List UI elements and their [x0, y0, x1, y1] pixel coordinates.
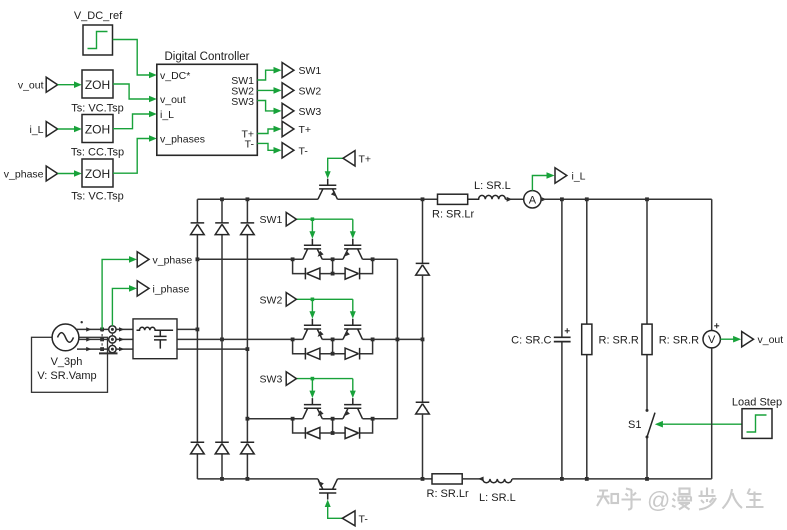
svg-text:v_out: v_out — [758, 334, 784, 346]
ZOH block (i_L) — [82, 115, 113, 143]
voltmeter branch — [703, 199, 720, 479]
node filter out c on bus c — [246, 347, 250, 351]
switch S1 — [628, 409, 655, 439]
diode Da- — [191, 442, 205, 454]
node R branch2 top — [645, 197, 649, 201]
ZOH block (v_out) — [82, 70, 113, 98]
input tag T- — [342, 511, 368, 526]
wire controller T+ out — [257, 126, 281, 134]
svg-text:L: SR.L: L: SR.L — [479, 492, 516, 504]
node cap branch top — [560, 197, 564, 201]
svg-text:i_phase: i_phase — [153, 283, 190, 295]
wire top rail left — [197, 198, 318, 200]
wire SW2 gates — [296, 298, 355, 319]
svg-text:SW2: SW2 — [260, 294, 283, 306]
ZOH block (v_phase) — [82, 159, 113, 187]
svg-text:SW1: SW1 — [260, 214, 283, 226]
wire controller SW1 out — [257, 67, 281, 80]
node bus b bottom — [220, 477, 224, 481]
resistor R: SR.Lr bottom — [427, 474, 470, 500]
wire bottom rail right — [512, 478, 712, 480]
bus b vertical — [221, 199, 223, 479]
wire SW1 row to midpoint bus — [373, 258, 398, 260]
wire ZOH2 to controller i_L — [113, 111, 157, 129]
output tag SW3 — [282, 103, 321, 118]
svg-text:S1: S1 — [628, 419, 641, 431]
node bus c bottom — [246, 477, 250, 481]
svg-text:Load Step: Load Step — [732, 396, 782, 408]
wire load step to S1 — [655, 421, 742, 428]
node cap branch bottom — [560, 477, 564, 481]
input tag SW1 — [260, 212, 297, 226]
svg-text:V_DC_ref: V_DC_ref — [74, 10, 123, 22]
node neutral leg bottom — [421, 477, 425, 481]
svg-text:C: SR.C: C: SR.C — [511, 334, 551, 346]
input tag SW2 — [260, 293, 297, 307]
svg-text:R: SR.R: R: SR.R — [659, 334, 699, 346]
input tag v_phase — [4, 166, 58, 181]
svg-text:@: @ — [647, 487, 670, 513]
wire filter out b — [177, 338, 293, 340]
node R branch2 bottom — [645, 477, 649, 481]
wire phase b from source — [79, 337, 133, 341]
wire SW2 row to neutral leg — [373, 338, 423, 340]
bus c vertical — [246, 199, 248, 479]
svg-text:i_L: i_L — [160, 109, 174, 121]
node phase a voltage tap — [100, 328, 104, 332]
svg-text:SW3: SW3 — [260, 374, 283, 386]
wire i_L tag to ZOH2 — [58, 126, 82, 133]
voltage source V_3ph circle — [52, 321, 83, 351]
step source Load Step — [732, 396, 782, 438]
svg-text:ZOH: ZOH — [85, 167, 110, 181]
neutral leg vertical — [422, 199, 424, 479]
wire controller SW2 out — [257, 87, 281, 94]
wire SW3 gates — [296, 377, 355, 398]
svg-text:R: SR.Lr: R: SR.Lr — [432, 209, 475, 221]
ammeter link dashed — [111, 333, 113, 345]
wire controller SW3 out — [257, 101, 281, 115]
node filter out b on bus b — [220, 338, 224, 342]
svg-text:SW3: SW3 — [299, 106, 322, 118]
output tag i_L — [555, 168, 586, 183]
wire SW3 row to midpoint bus — [373, 418, 398, 420]
wire ammeter to i_L tag — [532, 172, 554, 190]
wire ZOH3 to controller v_phases — [113, 135, 157, 173]
input tag SW3 — [260, 372, 297, 386]
ground bar — [99, 352, 118, 354]
voltmeter link dashed — [101, 329, 103, 352]
node bus a SW1 row — [196, 257, 200, 261]
svg-text:SW2: SW2 — [299, 85, 322, 97]
svg-text:SW1: SW1 — [299, 65, 322, 77]
output tag SW2 — [282, 83, 321, 98]
svg-text:V_3ph: V_3ph — [51, 356, 83, 368]
resistor R: SR.Lr top — [432, 194, 475, 220]
diode Dn+ — [416, 263, 430, 275]
node filter out a on bus a — [196, 328, 200, 332]
svg-text:R: SR.R: R: SR.R — [599, 334, 639, 346]
svg-text:v_phases: v_phases — [160, 133, 205, 145]
bidirectional switch cell SW2 — [291, 319, 375, 360]
inductor L: SR.L top — [468, 180, 511, 199]
transistor T+ — [318, 179, 339, 200]
svg-text:v_out: v_out — [18, 80, 44, 92]
node midpoint bus SW2 row — [396, 338, 400, 342]
wire T- gate — [325, 500, 343, 519]
bus a vertical — [196, 199, 198, 479]
capacitor C: SR.C — [511, 199, 570, 479]
diode Da+ — [191, 223, 205, 235]
current probe phase c — [109, 345, 116, 352]
svg-text:T-: T- — [359, 513, 369, 525]
diode Dn- — [416, 402, 430, 414]
node R branch1 bottom — [585, 477, 589, 481]
diode Db+ — [215, 223, 229, 235]
svg-text:T-: T- — [299, 145, 309, 157]
resistor R: SR.R branch1 — [582, 199, 639, 479]
resistor R: SR.R branch2 — [642, 199, 699, 479]
wire SW1 gates — [296, 217, 355, 238]
node phase c voltage tap — [100, 347, 104, 351]
node R branch1 top — [585, 197, 589, 201]
input tag v_out — [18, 77, 58, 92]
svg-text:L: SR.L: L: SR.L — [474, 180, 511, 192]
wire top rail right of T+ — [338, 198, 438, 200]
output tag i_phase — [137, 281, 189, 296]
svg-text:R: SR.Lr: R: SR.Lr — [427, 488, 470, 500]
svg-text:i_L: i_L — [29, 124, 43, 136]
svg-text:A: A — [529, 194, 537, 206]
wire phase a from source — [77, 327, 133, 331]
step source V_DC_ref — [74, 10, 123, 55]
svg-text:T+: T+ — [359, 153, 372, 165]
node bus c SW3 row — [246, 417, 250, 421]
bidirectional switch cell SW1 — [291, 239, 375, 280]
current probe phase b — [109, 336, 116, 343]
input tag T+ — [343, 151, 371, 166]
svg-text:V: SR.Vamp: V: SR.Vamp — [37, 370, 96, 382]
wire controller T- out — [257, 143, 281, 153]
node neutral leg midpoint — [421, 338, 425, 342]
diode Dc- — [241, 442, 255, 454]
midpoint bus vertical — [396, 259, 398, 418]
watermark zhihu — [597, 488, 764, 510]
svg-text:Ts: CC.Tsp: Ts: CC.Tsp — [71, 146, 124, 158]
ammeter A — [524, 191, 547, 208]
wire bottom rail right of T- — [338, 478, 433, 480]
wire coil to ammeter — [505, 197, 523, 202]
output tag T+ — [282, 121, 311, 136]
wire T+ gate — [325, 158, 343, 178]
svg-text:Ts: VC.Tsp: Ts: VC.Tsp — [71, 103, 124, 115]
wire ZOH1 to controller v_out — [113, 84, 157, 102]
output tag SW1 — [282, 63, 321, 78]
subsystem Digital Controller — [157, 51, 257, 155]
current probe phase a — [109, 326, 116, 333]
output tag T- — [282, 143, 308, 158]
wire bottom rail left — [197, 478, 318, 480]
wire v_out tag to ZOH1 — [58, 81, 82, 88]
wire v_phase measurement to tag — [102, 256, 137, 329]
node neutral leg top — [421, 197, 425, 201]
svg-text:i_L: i_L — [572, 171, 586, 183]
output tag v_phase — [137, 252, 192, 267]
svg-text:T-: T- — [245, 138, 255, 150]
bidirectional switch cell SW3 — [291, 398, 375, 439]
wire phase c from source — [77, 347, 133, 351]
diode Db- — [215, 442, 229, 454]
svg-text:ZOH: ZOH — [85, 78, 110, 92]
svg-text:SW3: SW3 — [231, 96, 254, 108]
wire bus c to SW3 cell — [247, 418, 292, 420]
svg-text:ZOH: ZOH — [85, 122, 110, 136]
output tag v_out — [742, 332, 784, 347]
svg-text:v_DC*: v_DC* — [160, 70, 190, 82]
wire bus a to SW1 cell — [197, 258, 292, 260]
svg-text:v_phase: v_phase — [153, 254, 193, 266]
svg-text:V: V — [708, 334, 716, 346]
svg-text:Ts: VC.Tsp: Ts: VC.Tsp — [71, 191, 124, 203]
transistor T- — [316, 479, 337, 500]
node phase b voltage tap — [100, 338, 104, 342]
wire top rail right — [541, 198, 712, 200]
voltage source V_3ph label box — [32, 337, 108, 392]
svg-text:T+: T+ — [299, 124, 312, 136]
wire filter out a — [177, 328, 197, 330]
wire v_phase tag to ZOH3 — [58, 170, 82, 177]
svg-text:Digital Controller: Digital Controller — [164, 51, 249, 63]
wire R to coil bottom with arrow — [462, 477, 483, 482]
svg-text:v_out: v_out — [160, 94, 186, 106]
wire V_DC_ref to controller v_DC* — [113, 40, 157, 79]
wire i_phase measurement to tag — [112, 285, 136, 326]
wire voltmeter to v_out tag — [720, 336, 741, 343]
inductor L: SR.L bottom — [479, 479, 516, 504]
input tag i_L — [29, 122, 57, 137]
svg-text:v_phase: v_phase — [4, 168, 44, 180]
node bus c top — [246, 197, 250, 201]
wire filter out c — [177, 348, 247, 350]
LC filter block — [133, 319, 177, 359]
diode Dc+ — [241, 223, 255, 235]
node bus b top — [220, 197, 224, 201]
